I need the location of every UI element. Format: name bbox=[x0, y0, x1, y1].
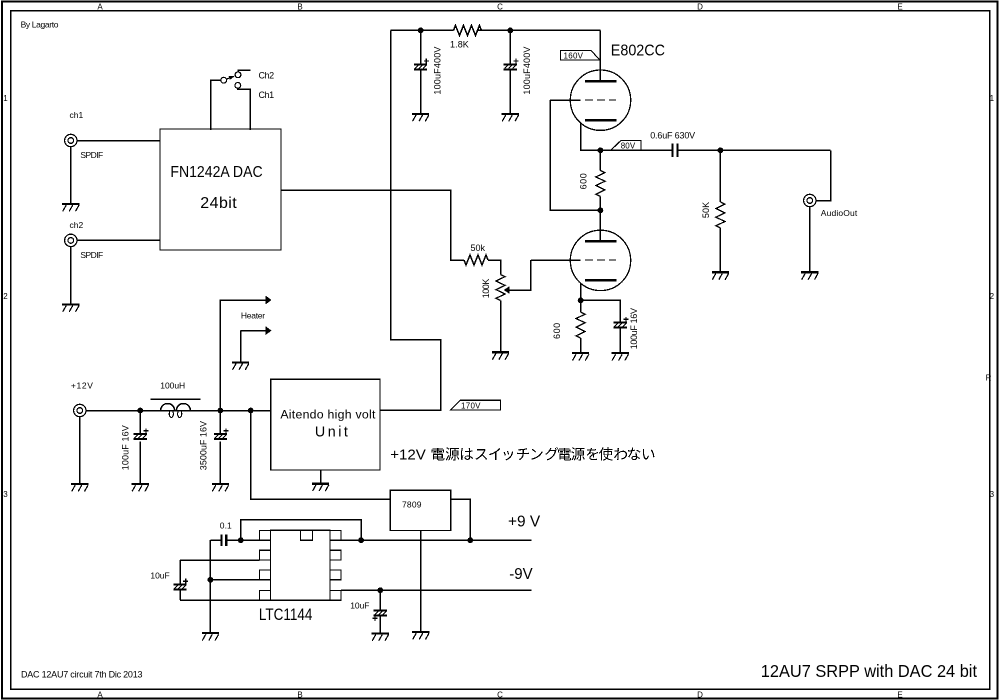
svg-text:Heater: Heater bbox=[241, 311, 265, 321]
svg-text:A: A bbox=[97, 2, 103, 11]
svg-text:100K: 100K bbox=[481, 279, 491, 299]
svg-text:E: E bbox=[897, 2, 902, 11]
svg-text:50K: 50K bbox=[701, 202, 711, 218]
svg-text:B: B bbox=[297, 691, 302, 700]
svg-text:2: 2 bbox=[990, 292, 995, 301]
svg-text:+12V: +12V bbox=[390, 446, 426, 463]
svg-text:600: 600 bbox=[578, 173, 588, 189]
svg-text:SPDIF: SPDIF bbox=[80, 250, 103, 260]
svg-text:By Lagarto: By Lagarto bbox=[21, 20, 59, 30]
svg-text:50k: 50k bbox=[471, 243, 486, 253]
svg-text:100uF 16V: 100uF 16V bbox=[629, 308, 639, 349]
svg-text:+12V: +12V bbox=[71, 380, 93, 390]
svg-text:Aitendo high volt: Aitendo high volt bbox=[280, 408, 376, 422]
svg-text:1: 1 bbox=[990, 94, 995, 103]
svg-text:AudioOut: AudioOut bbox=[821, 208, 858, 218]
svg-text:80V: 80V bbox=[621, 142, 636, 151]
svg-text:2: 2 bbox=[3, 292, 8, 301]
svg-text:Ch1: Ch1 bbox=[259, 90, 275, 100]
svg-text:ch1: ch1 bbox=[70, 110, 84, 120]
svg-text:600: 600 bbox=[552, 323, 562, 339]
svg-text:10uF: 10uF bbox=[350, 600, 369, 610]
svg-text:3: 3 bbox=[990, 490, 995, 499]
svg-text:3: 3 bbox=[3, 490, 8, 499]
svg-text:-9V: -9V bbox=[509, 566, 533, 583]
svg-text:1: 1 bbox=[3, 94, 8, 103]
svg-text:A: A bbox=[97, 691, 103, 700]
svg-text:100uF400V: 100uF400V bbox=[432, 47, 442, 95]
svg-text:SPDIF: SPDIF bbox=[80, 150, 103, 160]
svg-text:10uF: 10uF bbox=[150, 571, 169, 581]
svg-text:170V: 170V bbox=[461, 401, 481, 410]
svg-text:D: D bbox=[697, 2, 703, 11]
svg-text:Unit: Unit bbox=[315, 425, 348, 441]
svg-text:B: B bbox=[297, 2, 302, 11]
svg-text:C: C bbox=[497, 2, 503, 11]
svg-text:0.6uF 630V: 0.6uF 630V bbox=[650, 130, 695, 140]
svg-text:12AU7 SRPP with DAC 24 bit: 12AU7 SRPP with DAC 24 bit bbox=[761, 661, 977, 681]
svg-text:E802CC: E802CC bbox=[611, 43, 665, 60]
svg-text:C: C bbox=[497, 691, 503, 700]
svg-text:ch2: ch2 bbox=[70, 220, 84, 230]
svg-text:100uF400V: 100uF400V bbox=[522, 47, 532, 95]
svg-text:D: D bbox=[697, 691, 703, 700]
svg-text:3500uF 16V: 3500uF 16V bbox=[198, 421, 208, 470]
svg-text:0.1: 0.1 bbox=[220, 520, 232, 530]
svg-text:R: R bbox=[986, 373, 992, 382]
svg-text:LTC1144: LTC1144 bbox=[259, 606, 313, 624]
svg-text:160V: 160V bbox=[564, 51, 584, 60]
svg-text:DAC 12AU7 circuit 7th Dic 2013: DAC 12AU7 circuit 7th Dic 2013 bbox=[21, 670, 143, 680]
svg-text:FN1242A DAC: FN1242A DAC bbox=[170, 164, 262, 181]
svg-text:E: E bbox=[897, 691, 902, 700]
svg-text:100uH: 100uH bbox=[160, 380, 185, 390]
svg-text:Ch2: Ch2 bbox=[259, 71, 275, 81]
svg-text:100uF 16V: 100uF 16V bbox=[121, 425, 131, 470]
svg-text:24bit: 24bit bbox=[200, 195, 237, 212]
svg-text:+9 V: +9 V bbox=[508, 514, 541, 531]
svg-text:7809: 7809 bbox=[402, 499, 422, 509]
svg-text:1.8K: 1.8K bbox=[450, 40, 469, 50]
